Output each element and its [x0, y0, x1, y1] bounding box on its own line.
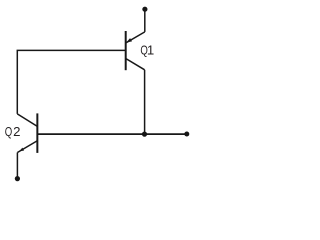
wire: Q1 collector down to gate rail — [144, 70, 146, 134]
transistor Q2 (NPN) — [17, 113, 37, 152]
wire: Q2 base to gate terminal — [37, 133, 186, 135]
transistor Q1 (PNP) — [126, 31, 145, 70]
svg-text:1: 1 — [147, 43, 154, 58]
junction dot (Q1 collector / Q2 base) — [142, 132, 147, 137]
terminal dot (gate) — [184, 132, 189, 137]
wire: Q1 emitter to anode terminal — [144, 9, 146, 32]
svg-text:2: 2 — [13, 124, 20, 139]
terminal dot (cathode) — [15, 176, 20, 181]
wire: Q1 base to Q2 collector — [17, 50, 125, 114]
svg-text:Q: Q — [5, 126, 13, 140]
wire: Q2 emitter to cathode terminal — [16, 153, 18, 179]
terminal dot (anode) — [142, 7, 147, 12]
